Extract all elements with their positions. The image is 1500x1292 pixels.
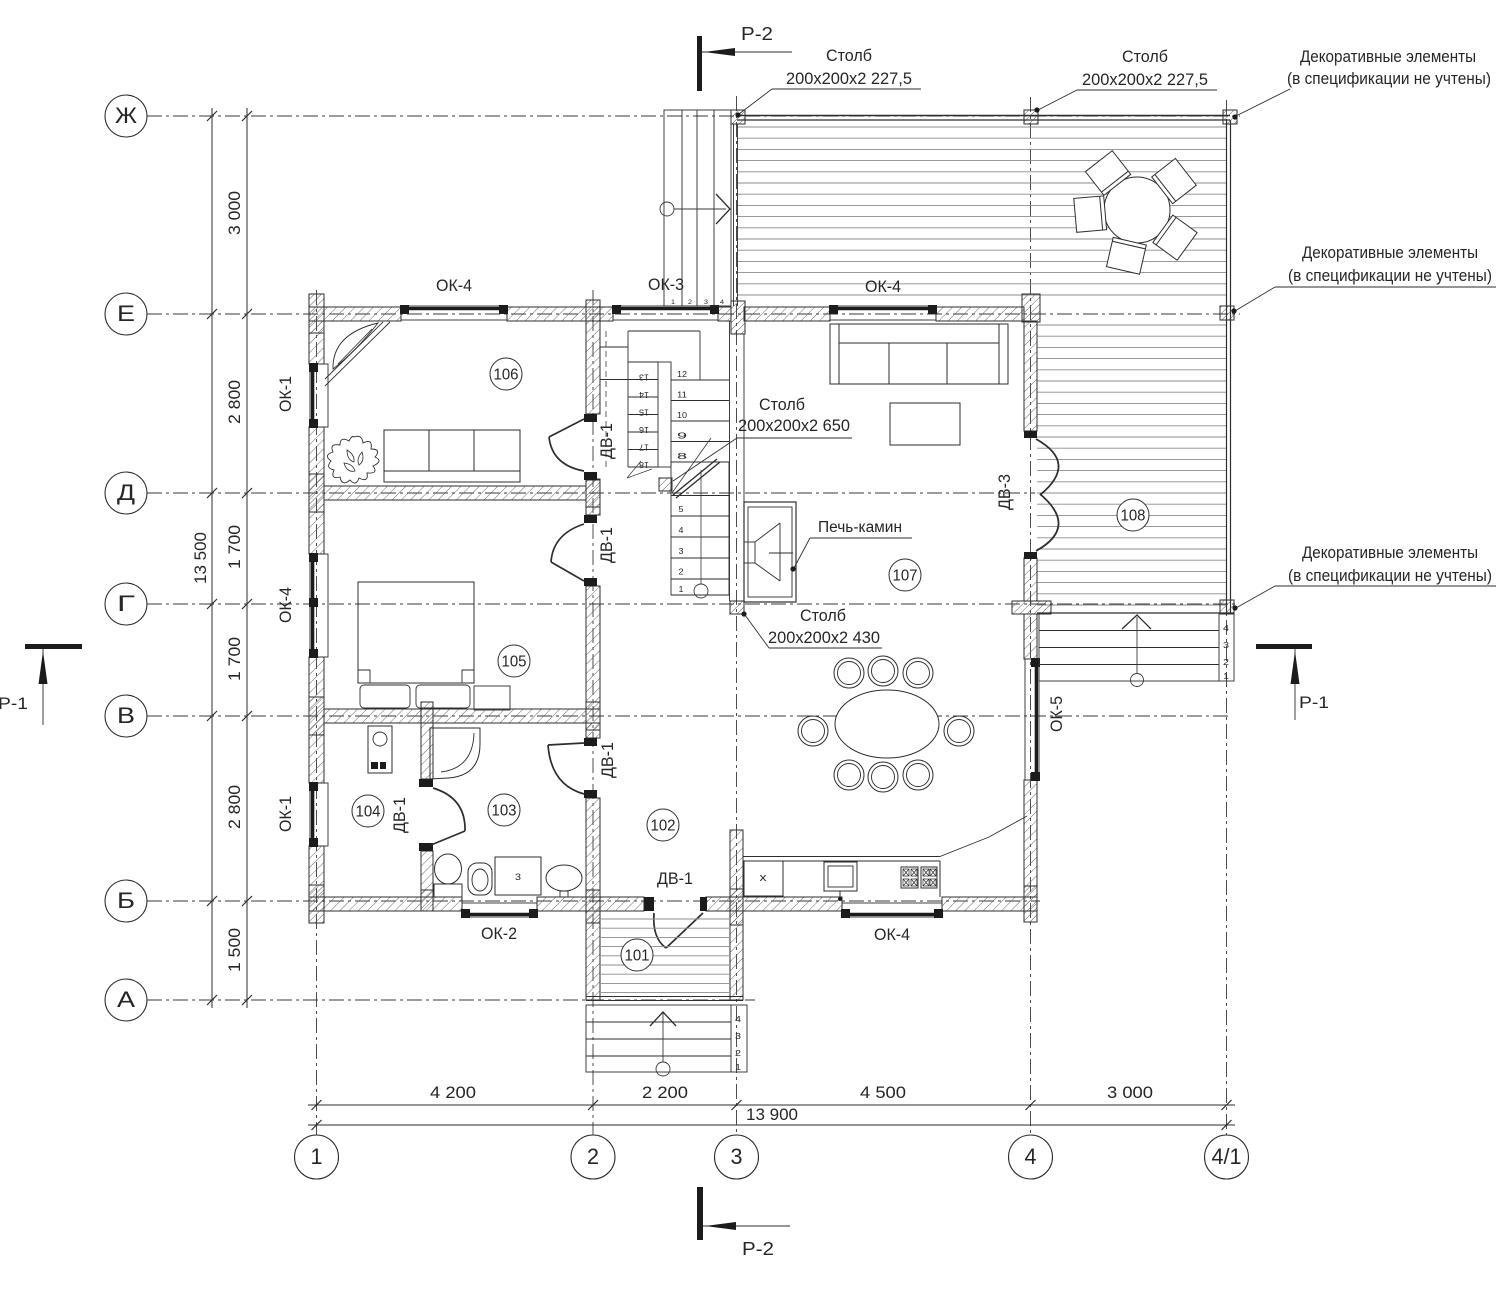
svg-text:Декоративные элементы: Декоративные элементы xyxy=(1302,543,1478,562)
wall axis-4 right xyxy=(1024,321,1037,431)
axis line 2 xyxy=(592,290,594,1135)
axis bubble 4/1 xyxy=(1205,1135,1249,1179)
room label 108 xyxy=(1117,499,1149,531)
section marker Р-2 bottom xyxy=(697,1187,703,1240)
svg-text:101: 101 xyxy=(625,948,650,965)
porch stair walk line xyxy=(656,1062,670,1076)
axis line А xyxy=(147,999,755,1001)
svg-text:3: 3 xyxy=(731,1144,743,1169)
stair upper flight treads (13-18) xyxy=(628,361,658,363)
log-end post axis1-Е xyxy=(309,294,324,333)
deck post 4/1-Е decorative xyxy=(1220,306,1234,320)
window ОК-4 (top wall, room 106) xyxy=(401,306,507,320)
room 105 pillows xyxy=(360,685,410,708)
dining chair xyxy=(903,760,933,790)
svg-text:13: 13 xyxy=(639,373,649,383)
svg-text:5: 5 xyxy=(679,504,684,514)
stair step-18 pointer xyxy=(627,461,641,478)
dimension line left chain xyxy=(246,108,248,1008)
axis bubble 1 xyxy=(295,1135,339,1179)
svg-text:ДВ-1: ДВ-1 xyxy=(598,527,616,563)
section marker Р-1 right xyxy=(1256,644,1312,649)
axis bubble Е xyxy=(105,293,147,335)
svg-text:3: 3 xyxy=(679,546,684,556)
axis line Г xyxy=(147,603,1237,605)
door ДВ-1 entrance (leaf and swing) xyxy=(654,913,666,948)
log-end post stub-Б xyxy=(730,889,743,925)
dimension line bottom total 13900 xyxy=(308,1124,1235,1126)
svg-text:1: 1 xyxy=(311,1144,323,1169)
deck post 4/1-Г decorative xyxy=(1220,600,1234,614)
living room sofa xyxy=(830,324,1008,384)
deck west edge xyxy=(733,124,735,306)
svg-text:1 700: 1 700 xyxy=(225,637,244,681)
svg-text:200x200x2 430: 200x200x2 430 xyxy=(768,628,880,647)
log-end post axis1-Д xyxy=(309,474,324,512)
svg-text:2 800: 2 800 xyxy=(225,785,244,829)
room label 102 xyxy=(647,809,679,841)
axis bubble Г xyxy=(105,583,147,625)
porch bottom edge xyxy=(586,996,743,998)
svg-text:Столб: Столб xyxy=(759,395,805,414)
svg-text:1: 1 xyxy=(679,584,684,594)
kitchen sink xyxy=(824,862,857,891)
room 106 corner shelf leaf xyxy=(333,323,378,369)
room 103 sink xyxy=(546,865,582,891)
room label 106 xyxy=(490,358,522,390)
svg-text:ОК-5: ОК-5 xyxy=(1048,696,1066,732)
svg-text:14: 14 xyxy=(639,390,649,400)
log-end post axis1-Б xyxy=(309,885,324,923)
stair walk line and start circle xyxy=(694,584,708,598)
room 106 sofa xyxy=(384,430,520,482)
room label 105 xyxy=(498,645,530,677)
log-end post axis2-Е xyxy=(586,300,600,321)
wall Е top east xyxy=(744,307,830,321)
axis line Д xyxy=(147,492,1035,494)
room 104 boiler xyxy=(368,726,392,773)
svg-text:4/1: 4/1 xyxy=(1212,1144,1242,1169)
svg-text:ОК-3: ОК-3 xyxy=(648,276,684,294)
stair floor-opening dashed line xyxy=(605,331,607,467)
svg-text:Р-2: Р-2 xyxy=(742,1239,774,1259)
porch entry stair xyxy=(586,1005,747,1072)
kitchen dishwasher xyxy=(744,861,783,896)
window ОК-4 (bottom wall, kitchen) xyxy=(842,903,942,917)
svg-text:13 900: 13 900 xyxy=(746,1105,798,1124)
svg-text:3: 3 xyxy=(515,872,521,883)
fireplace Печь-камин body xyxy=(744,502,796,602)
svg-text:2: 2 xyxy=(587,1144,599,1169)
stair from deck walk line xyxy=(1136,617,1138,673)
room 103 bidet xyxy=(468,863,492,895)
porch decking xyxy=(601,919,729,993)
log-end post axis4-Б xyxy=(1024,886,1037,922)
axis bubble Б xyxy=(105,880,147,922)
window ОК-4 left middle mullion xyxy=(309,598,318,607)
wall Д interior xyxy=(324,486,586,500)
deck post 4/1-Ж decorative xyxy=(1223,110,1237,124)
svg-text:ДВ-1: ДВ-1 xyxy=(599,742,617,778)
svg-text:3: 3 xyxy=(704,299,708,306)
svg-text:4: 4 xyxy=(1223,624,1230,633)
room label 103 xyxy=(488,794,520,826)
door ДВ-1 104-103 (jambs) xyxy=(419,779,433,787)
door ДВ-1 to room 105 (jambs) xyxy=(584,515,597,523)
svg-text:3 000: 3 000 xyxy=(225,191,244,235)
svg-text:Б: Б xyxy=(117,888,135,913)
dining chair xyxy=(868,656,898,686)
axis line В xyxy=(147,715,1230,717)
post at stair (Столб 650) xyxy=(659,478,672,491)
svg-text:1: 1 xyxy=(1223,672,1230,681)
svg-text:102: 102 xyxy=(651,818,676,835)
svg-text:ОК-4: ОК-4 xyxy=(865,278,901,296)
svg-text:15: 15 xyxy=(639,408,649,418)
stair from deck (east) xyxy=(1039,613,1234,681)
wall axis-2 interior xyxy=(586,321,600,414)
svg-text:17: 17 xyxy=(639,443,649,453)
door ДВ-3 double door to deck (leaves) xyxy=(1036,439,1059,495)
section marker Р-2 top xyxy=(697,36,702,91)
svg-text:ДВ-1: ДВ-1 xyxy=(391,797,409,833)
svg-text:Столб: Столб xyxy=(1122,47,1168,66)
svg-text:3: 3 xyxy=(735,1032,742,1041)
svg-text:107: 107 xyxy=(893,568,918,585)
window ОК-4 (top wall, room 107) xyxy=(830,306,936,320)
axis bubble 2 xyxy=(571,1135,615,1179)
svg-text:104: 104 xyxy=(356,804,381,821)
door ДВ-1 103-102 (jambs) xyxy=(584,738,597,746)
stair lower flight treads (1-5) xyxy=(670,462,672,595)
deck bottom edge xyxy=(1037,612,1234,614)
svg-text:1 500: 1 500 xyxy=(225,928,244,972)
log-end post axis2-Б xyxy=(586,890,600,923)
kitchen counter xyxy=(743,856,940,858)
wall divider 104-103 xyxy=(421,723,433,779)
svg-text:Р-1: Р-1 xyxy=(0,694,28,713)
svg-text:200x200x2 650: 200x200x2 650 xyxy=(738,416,850,435)
axis line 4 xyxy=(1030,97,1032,1135)
svg-text:1: 1 xyxy=(671,299,675,306)
porch right wall / kitchen stub xyxy=(730,830,743,1000)
log-end post axis2-В xyxy=(586,702,600,730)
svg-text:Печь-камин: Печь-камин xyxy=(818,519,902,536)
svg-text:8: 8 xyxy=(677,451,688,461)
svg-text:ДВ-1: ДВ-1 xyxy=(657,870,693,888)
svg-text:Столб: Столб xyxy=(826,46,872,65)
dining chair xyxy=(834,658,864,688)
room label 107 xyxy=(889,559,921,591)
stair to deck walk line xyxy=(660,202,674,216)
dimension line bottom chain xyxy=(308,1104,1235,1106)
svg-text:11: 11 xyxy=(677,390,687,400)
axis bubble 3 xyxy=(715,1135,759,1179)
axis line Ж xyxy=(147,115,1240,117)
dining chair xyxy=(903,658,933,688)
svg-text:ОК-1: ОК-1 xyxy=(277,796,295,832)
door ДВ-1 to room 106 (jambs) xyxy=(584,414,597,422)
svg-text:103: 103 xyxy=(492,803,517,820)
svg-text:2: 2 xyxy=(688,299,692,306)
door ДВ-1 to room 105 (leaf and swing) xyxy=(551,562,584,581)
svg-text:ОК-1: ОК-1 xyxy=(277,376,295,412)
stair to deck (top) xyxy=(664,110,731,306)
svg-text:10: 10 xyxy=(677,410,687,420)
svg-text:Декоративные элементы: Декоративные элементы xyxy=(1300,47,1476,66)
svg-text:105: 105 xyxy=(502,654,527,671)
axis line Е xyxy=(147,313,1240,315)
svg-text:16: 16 xyxy=(639,425,649,435)
deck right edge xyxy=(1226,120,1228,613)
room 106 plant xyxy=(327,436,379,483)
room 103 shower tray xyxy=(430,728,480,779)
window ОК-5 (right wall, room 107) xyxy=(1025,659,1039,780)
svg-text:Е: Е xyxy=(117,301,135,326)
stairwell outline xyxy=(628,330,700,332)
svg-text:4: 4 xyxy=(735,1015,742,1024)
svg-text:3: 3 xyxy=(1223,641,1230,650)
wall Б bottom xyxy=(309,897,462,911)
deck post axis3-Ж xyxy=(731,110,745,124)
svg-text:3 000: 3 000 xyxy=(1107,1083,1153,1102)
svg-text:2: 2 xyxy=(679,567,684,577)
room 106 corner shelf xyxy=(325,322,390,386)
log-end post divider-В xyxy=(421,702,433,723)
svg-text:В: В xyxy=(117,703,135,728)
door ДВ-1 entrance (jambs) xyxy=(644,897,654,911)
svg-text:Столб: Столб xyxy=(800,606,846,625)
wall axis-1 left exterior xyxy=(309,321,324,364)
window ОК-2 (bottom wall, room 103) xyxy=(462,903,537,917)
door ДВ-1 103-102 (leaf and swing) xyxy=(548,743,584,745)
dining chair xyxy=(834,760,864,790)
room 103 washing machine xyxy=(495,857,541,895)
svg-text:1 700: 1 700 xyxy=(225,525,244,569)
wall В interior xyxy=(324,709,586,723)
svg-text:200x200x2 227,5: 200x200x2 227,5 xyxy=(1082,70,1208,89)
deck boards lower xyxy=(1037,325,1226,605)
svg-text:Д: Д xyxy=(117,480,135,505)
window ОК-3 (top wall, stair) xyxy=(613,306,718,320)
svg-text:4: 4 xyxy=(720,299,724,306)
svg-text:ОК-2: ОК-2 xyxy=(481,925,517,943)
svg-text:x: x xyxy=(760,872,768,884)
door ДВ-1 to room 106 (leaf and swing) xyxy=(549,419,584,437)
room 105 double bed xyxy=(358,582,474,683)
dining chair xyxy=(944,716,974,746)
svg-text:(в спецификации не учтены): (в спецификации не учтены) xyxy=(1288,566,1492,585)
axis bubble В xyxy=(105,695,147,737)
room 105 bedside bench xyxy=(474,686,510,710)
living room coffee table xyxy=(890,403,960,445)
window ОК-1 (left wall, room 106) xyxy=(310,364,328,427)
fireplace firebox xyxy=(754,542,756,563)
svg-text:ДВ-1: ДВ-1 xyxy=(598,423,616,459)
axis bubble А xyxy=(105,979,147,1021)
svg-text:2 800: 2 800 xyxy=(225,380,244,424)
svg-text:200x200x2 227,5: 200x200x2 227,5 xyxy=(786,69,912,88)
svg-text:(в спецификации не учтены): (в спецификации не учтены) xyxy=(1287,69,1491,88)
log-end post divider-Б xyxy=(421,890,433,911)
svg-text:Р-1: Р-1 xyxy=(1299,693,1329,712)
deck boards upper xyxy=(737,127,1226,295)
svg-text:2: 2 xyxy=(1223,658,1230,667)
dining chair xyxy=(868,762,898,792)
deck post axis4-Ж (Столб 227,5) xyxy=(1024,110,1038,124)
door ДВ-3 double door to deck (jambs) xyxy=(1024,431,1037,438)
axis line 4/1 xyxy=(1226,100,1228,1135)
dimension line left total 13500 xyxy=(211,108,213,1008)
log-end post axis4-Е xyxy=(1022,294,1040,322)
axis bubble Д xyxy=(105,472,147,514)
svg-text:4: 4 xyxy=(1025,1144,1037,1169)
room label 104 xyxy=(352,795,384,827)
log-end post axis2-Д xyxy=(586,479,600,507)
window ОК-1 (left wall, room 104) xyxy=(310,783,328,846)
axis bubble Ж xyxy=(105,95,147,137)
svg-text:ОК-4: ОК-4 xyxy=(277,587,295,623)
deck chairs xyxy=(1085,151,1130,196)
kitchen open corner line xyxy=(940,816,1027,857)
deck post cross axis4-Г xyxy=(1012,601,1051,614)
svg-text:ДВ-3: ДВ-3 xyxy=(996,474,1014,510)
svg-text:Ж: Ж xyxy=(115,103,138,128)
svg-text:1: 1 xyxy=(735,1063,742,1072)
svg-text:ОК-4: ОК-4 xyxy=(874,926,910,944)
room label 101 xyxy=(621,939,653,971)
section marker Р-1 left xyxy=(25,644,82,649)
deck top edge xyxy=(737,115,1230,117)
wall Е top west xyxy=(309,307,401,321)
dining table xyxy=(835,690,939,758)
dining chair xyxy=(798,716,828,746)
svg-text:ОК-4: ОК-4 xyxy=(436,277,472,295)
log-end post axis3-Е xyxy=(731,301,745,334)
stair right flight treads (8-12) xyxy=(671,379,729,381)
svg-text:Декоративные элементы: Декоративные элементы xyxy=(1302,243,1478,262)
svg-text:2 200: 2 200 xyxy=(642,1083,688,1102)
log-end post axis1-В xyxy=(309,697,324,735)
axis line 1 xyxy=(316,290,318,1135)
svg-text:13 500: 13 500 xyxy=(191,532,210,584)
axis bubble 4 xyxy=(1009,1135,1053,1179)
svg-text:12: 12 xyxy=(677,369,687,379)
window ОК-4 (left wall, room 105) xyxy=(310,554,328,657)
post axis3-Г (Столб 430) xyxy=(730,601,744,614)
porch left wall xyxy=(586,911,600,1000)
room 103 toilet xyxy=(435,854,462,884)
svg-text:108: 108 xyxy=(1121,508,1146,525)
door ДВ-1 104-103 (leaf and swing) xyxy=(433,788,465,831)
stair stringer xyxy=(658,362,671,467)
svg-text:106: 106 xyxy=(494,367,519,384)
svg-text:(в спецификации не учтены): (в спецификации не учтены) xyxy=(1288,266,1492,285)
axis line 3 xyxy=(736,96,738,1135)
stair break lines xyxy=(672,438,711,493)
svg-text:Р-2: Р-2 xyxy=(741,24,773,44)
svg-text:А: А xyxy=(117,987,135,1012)
svg-text:4: 4 xyxy=(679,525,684,535)
svg-text:4 500: 4 500 xyxy=(860,1083,906,1102)
svg-text:Г: Г xyxy=(117,591,135,616)
axis line Б xyxy=(147,900,1040,902)
stair boundary along axis 3 xyxy=(729,321,731,601)
svg-text:4 200: 4 200 xyxy=(430,1083,476,1102)
kitchen stove xyxy=(901,867,918,888)
deck round table xyxy=(1104,177,1170,243)
svg-text:2: 2 xyxy=(735,1049,742,1058)
svg-text:9: 9 xyxy=(677,431,688,441)
